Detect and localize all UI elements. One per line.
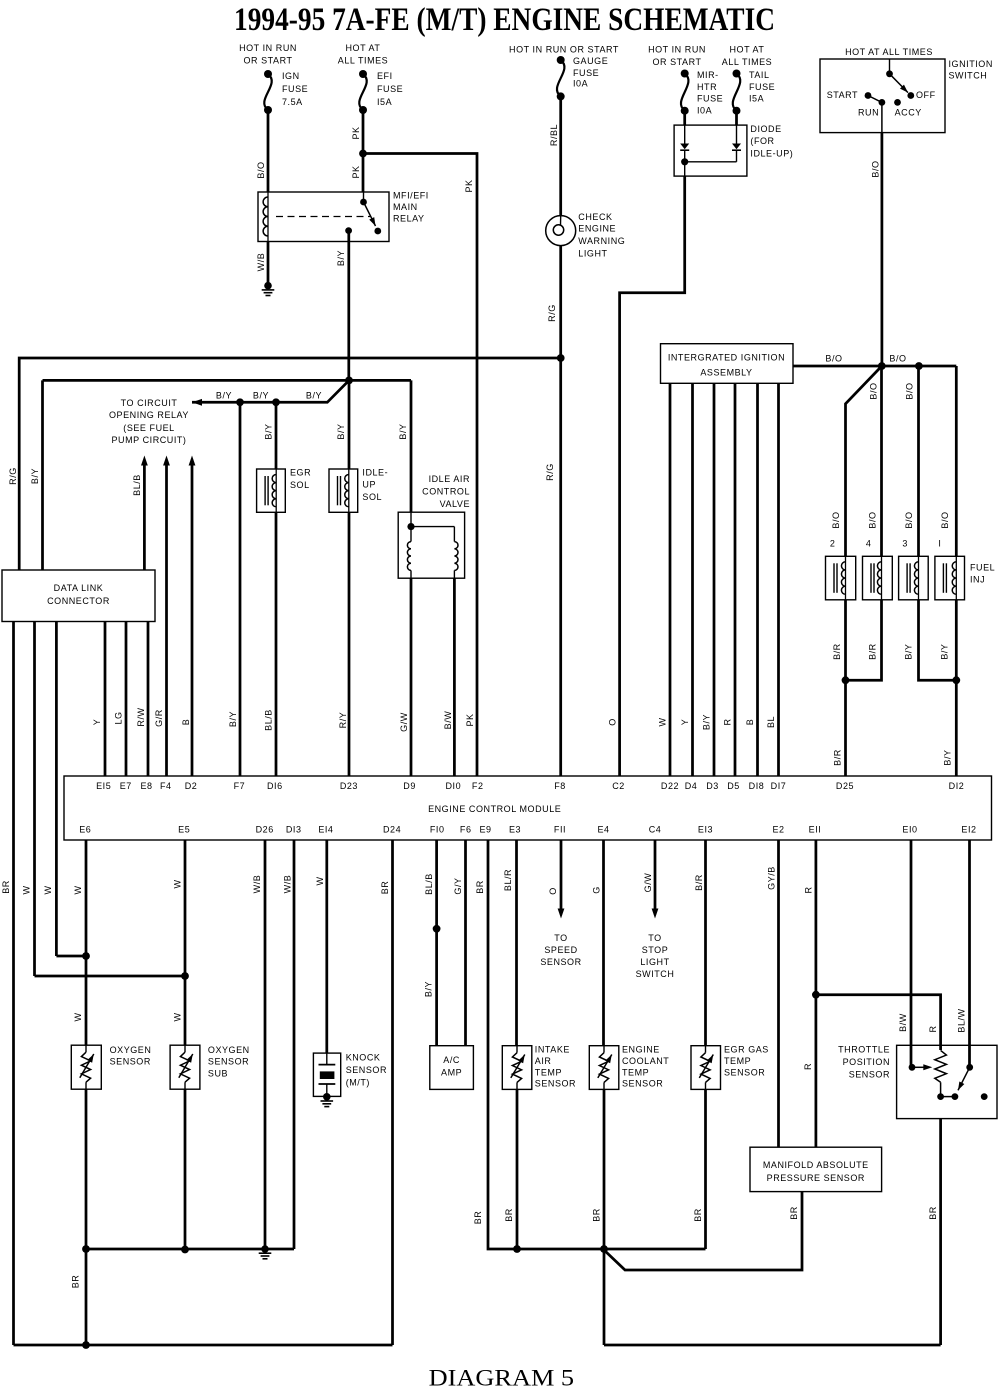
label W below E5 [173, 879, 183, 888]
wire BL/B DLC to circuit opening relay arrow [141, 456, 148, 571]
svg-text:D23: D23 [340, 781, 358, 791]
svg-text:B/O: B/O [869, 382, 879, 399]
svg-text:HOT AT: HOT AT [346, 43, 381, 53]
svg-text:OPENING RELAY: OPENING RELAY [109, 410, 189, 420]
svg-text:ENGINE CONTROL MODULE: ENGINE CONTROL MODULE [428, 804, 561, 814]
label IDLE-UP SOL [362, 468, 388, 503]
svg-text:TEMP: TEMP [724, 1056, 751, 1066]
svg-text:MFI/EFI: MFI/EFI [393, 191, 429, 201]
sensor manifold absolute pressure sensor [750, 1147, 882, 1191]
svg-text:E3: E3 [509, 825, 521, 835]
svg-text:RUN: RUN [858, 108, 879, 118]
node BR junction coolant [600, 1245, 608, 1253]
injector no.1 [935, 556, 965, 600]
svg-text:B/Y: B/Y [306, 391, 322, 401]
label W above O2 sub [173, 1012, 183, 1021]
svg-text:B/Y: B/Y [216, 391, 232, 401]
wire PK junction to ECM pin F2 [363, 154, 477, 777]
svg-text:ALL TIMES: ALL TIMES [722, 57, 772, 67]
node BL/B to B/Y splice [433, 925, 441, 933]
svg-text:W: W [173, 879, 183, 888]
svg-text:Y: Y [92, 719, 102, 726]
fuse GAUGE 10A [557, 56, 565, 100]
svg-text:SPEED: SPEED [544, 945, 577, 955]
svg-text:BL: BL [766, 716, 776, 728]
svg-text:ENGINE: ENGINE [622, 1045, 660, 1055]
label B/Y above IACV [398, 423, 408, 439]
label LG above E7 [114, 711, 124, 724]
svg-text:KNOCK: KNOCK [346, 1053, 381, 1063]
svg-text:W: W [22, 885, 32, 894]
wire B/W ECM pin E10 to TPS wiper [910, 840, 913, 1067]
svg-text:EI4: EI4 [318, 825, 333, 835]
label W/B below D13 [283, 875, 293, 894]
wire BR O2 sub to bus [184, 1089, 187, 1249]
node B/O junction ignition [878, 362, 886, 370]
svg-text:W/B: W/B [252, 875, 262, 894]
label B/Y above F7 [228, 711, 238, 727]
label HOT AT ALL TIMES (tail fuse) [722, 45, 772, 67]
svg-text:Y: Y [680, 719, 690, 726]
wire B/O ignition switch to B/O bus [881, 133, 884, 366]
label HOT IN RUN OR START (mir-htr fuse) [648, 45, 706, 67]
svg-text:B/O: B/O [831, 511, 841, 528]
svg-text:B/Y: B/Y [904, 644, 914, 660]
module engine control module (ECM) [64, 776, 992, 840]
fuse IGN 7.5A [264, 70, 272, 114]
svg-text:R/G: R/G [8, 467, 18, 485]
svg-text:SENSOR: SENSOR [849, 1069, 890, 1079]
label HOT IN RUN OR START (gauge fuse) [509, 45, 619, 55]
svg-text:I: I [938, 539, 941, 549]
wire B/O to injector 4 [880, 366, 883, 556]
label INTAKE AIR TEMP SENSOR [535, 1045, 576, 1089]
label B/O above inj4 [868, 511, 878, 528]
node PK junction [359, 150, 367, 158]
svg-text:BR: BR [71, 1275, 81, 1289]
svg-text:DIODE: DIODE [750, 124, 781, 134]
wire GY/B ECM pin E2 to MAP sensor [777, 840, 780, 1147]
svg-text:B/O: B/O [868, 511, 878, 528]
wire B/Y to idle air control valve [410, 380, 413, 512]
svg-text:FUSE: FUSE [697, 94, 723, 104]
svg-text:BR: BR [380, 881, 390, 895]
svg-text:B/R: B/R [832, 643, 842, 660]
wire BL/B EGR sol to ECM pin D16 [275, 512, 278, 776]
svg-text:PK: PK [351, 165, 361, 178]
svg-text:7.5A: 7.5A [282, 97, 303, 107]
label B/Y [702, 714, 712, 730]
svg-text:1994-95 7A-FE (M/T) ENGINE SC: 1994-95 7A-FE (M/T) ENGINE SCHEMATIC [234, 2, 775, 38]
svg-text:D3: D3 [706, 781, 719, 791]
label MFI/EFI MAIN RELAY [393, 191, 429, 224]
svg-text:HTR: HTR [697, 82, 717, 92]
svg-text:E8: E8 [140, 781, 152, 791]
svg-text:D4: D4 [685, 781, 698, 791]
label B above D2 [181, 719, 191, 726]
sensor knock sensor (M/T) [313, 1053, 340, 1096]
svg-text:B/O: B/O [940, 511, 950, 528]
label BR [592, 1208, 602, 1222]
fuse EFI 15A [359, 70, 367, 114]
svg-text:B/R: B/R [833, 749, 843, 766]
label THROTTLE POSITION SENSOR [838, 1045, 890, 1080]
diode (for idle-up) [674, 111, 747, 176]
svg-text:SENSOR: SENSOR [110, 1057, 151, 1067]
label TO CIRCUIT OPENING RELAY (SEE FUEL PUMP CIRCUIT) [109, 398, 189, 445]
wire BR intake air temp sensor to bus [516, 1089, 519, 1249]
svg-text:W: W [43, 885, 53, 894]
wire BR TPS to bottom bus [939, 1119, 942, 1345]
wire O ECM pin F11 to speed sensor (arrow) [558, 840, 565, 919]
svg-text:B/Y: B/Y [336, 423, 346, 439]
valve idle air control valve [398, 512, 464, 578]
wire R ECM pin E11 to MAP sensor [815, 840, 818, 1147]
svg-text:B/Y: B/Y [336, 250, 346, 266]
label R/G below junction [545, 463, 555, 481]
injector no.4 [863, 556, 893, 600]
wire B/Y horizontal bus [43, 379, 412, 382]
wire BR bottom-right bus [604, 1344, 941, 1347]
svg-text:FUSE: FUSE [573, 68, 599, 78]
svg-text:W/B: W/B [256, 253, 266, 272]
label Y [680, 719, 690, 726]
ground on left bus [259, 1245, 272, 1259]
svg-text:C4: C4 [649, 825, 662, 835]
label GAUGE FUSE I0A [573, 56, 608, 88]
svg-text:E7: E7 [120, 781, 132, 791]
label IGN FUSE 7.5A [282, 71, 308, 107]
svg-text:DI0: DI0 [445, 781, 461, 791]
label GY/B below E2 [767, 866, 777, 890]
label B [745, 719, 755, 726]
wire BL/W ECM pin E12 to TPS switch [968, 840, 971, 1067]
svg-text:PK: PK [351, 126, 361, 139]
svg-text:F2: F2 [472, 781, 484, 791]
wire B/R injector 4 to bus [846, 600, 882, 680]
svg-text:B/Y: B/Y [943, 749, 953, 765]
svg-text:ACCY: ACCY [895, 108, 922, 118]
svg-text:E9: E9 [479, 825, 491, 835]
svg-text:B/O: B/O [904, 511, 914, 528]
svg-text:R: R [723, 718, 733, 725]
svg-text:G/W: G/W [643, 873, 653, 893]
svg-text:4: 4 [866, 539, 872, 549]
label TO SPEED SENSOR [540, 933, 581, 967]
label W below E6 [73, 885, 83, 894]
label BL/B [132, 474, 142, 496]
wire BR MAP sensor to ground bus [604, 1192, 802, 1270]
svg-text:TO: TO [554, 933, 567, 943]
label MANIFOLD ABSOLUTE PRESSURE SENSOR [763, 1160, 869, 1183]
label PK [351, 165, 361, 178]
label B/Y [253, 391, 269, 401]
label W [658, 717, 668, 726]
svg-text:HOT IN RUN OR START: HOT IN RUN OR START [509, 45, 619, 55]
wire B/Y junction to idle-up solenoid [348, 380, 351, 469]
svg-text:IDLE-: IDLE- [362, 468, 388, 478]
svg-text:GY/B: GY/B [767, 866, 777, 890]
wire BR ECM pin D24 to bottom bus [391, 840, 394, 1345]
svg-text:B: B [745, 719, 755, 726]
svg-text:C2: C2 [612, 781, 625, 791]
svg-text:SOL: SOL [362, 492, 382, 502]
sensor intake air temp sensor [502, 1046, 532, 1090]
svg-text:CONNECTOR: CONNECTOR [47, 596, 110, 606]
wire B/R ECM pin E13 to EGR gas temp sensor [704, 840, 707, 1046]
svg-text:ASSEMBLY: ASSEMBLY [700, 368, 752, 378]
svg-text:ENGINE: ENGINE [578, 224, 616, 234]
svg-text:START: START [827, 90, 858, 100]
svg-text:DI3: DI3 [286, 825, 302, 835]
svg-text:R/Y: R/Y [338, 712, 348, 729]
svg-text:B/Y: B/Y [264, 423, 274, 439]
svg-text:BR: BR [475, 880, 485, 894]
label PK [464, 179, 474, 192]
svg-text:W: W [315, 876, 325, 885]
wire W junction link E5 [35, 975, 186, 978]
label B/Y [904, 644, 914, 660]
svg-text:SWITCH: SWITCH [949, 70, 988, 80]
label G/R above F4 [154, 709, 164, 727]
svg-text:W: W [658, 717, 668, 726]
sensor EGR gas temp sensor [691, 1046, 721, 1090]
wire W/B ECM pin D26 to ground bus [264, 840, 267, 1249]
label TO STOP LIGHT SWITCH [636, 933, 675, 979]
svg-text:INJ: INJ [970, 575, 985, 585]
svg-text:TEMP: TEMP [622, 1067, 649, 1077]
wire B/O IGN fuse to relay [267, 110, 270, 192]
svg-text:TO: TO [648, 933, 661, 943]
label O below F11 [548, 887, 558, 895]
svg-text:B/O: B/O [905, 382, 915, 399]
svg-text:EGR: EGR [290, 468, 311, 478]
svg-text:O: O [608, 718, 618, 726]
injector no.3 [899, 556, 929, 600]
svg-text:G: G [592, 886, 602, 894]
wire BR O2 sensor to bus [85, 1089, 88, 1345]
svg-text:RELAY: RELAY [393, 214, 425, 224]
svg-text:SUB: SUB [208, 1069, 228, 1079]
wire BR ECM pin E9 to right ground bus [488, 840, 706, 1249]
svg-text:SENSOR: SENSOR [535, 1079, 576, 1089]
label Y above E15 [92, 719, 102, 726]
label BR [71, 1275, 81, 1289]
wire B/Y relay contact to junction [347, 231, 350, 381]
node BR bus junction O2 sub [181, 1246, 189, 1254]
ECM bottom pin labels [79, 825, 976, 835]
svg-text:MIR-: MIR- [697, 70, 719, 80]
label B/Y above A/C amp [424, 981, 434, 997]
svg-text:DI8: DI8 [749, 781, 765, 791]
svg-text:IDLE AIR: IDLE AIR [429, 474, 470, 484]
label BR [1, 880, 11, 894]
title 1994-95 7A-FE (M/T) ENGINE SCHEMATIC [234, 2, 775, 38]
svg-text:OXYGEN: OXYGEN [208, 1045, 250, 1055]
label R above MAP [803, 1063, 813, 1070]
svg-text:EI2: EI2 [961, 825, 976, 835]
label injector number 3 [902, 539, 908, 549]
wire R IIA to ECM [734, 383, 737, 776]
svg-text:OXYGEN: OXYGEN [110, 1045, 152, 1055]
wire R/G warning light to ECM pin F8 [559, 246, 562, 776]
svg-text:D26: D26 [256, 825, 274, 835]
node BR bus junction O2 [82, 1245, 90, 1253]
svg-text:(M/T): (M/T) [346, 1078, 370, 1088]
svg-text:AIR: AIR [535, 1056, 552, 1066]
svg-text:SWITCH: SWITCH [636, 969, 675, 979]
label W [43, 885, 53, 894]
label INTERGRATED IGNITION ASSEMBLY [668, 353, 785, 378]
label B/Y above idle-up sol [336, 423, 346, 439]
label W/B below D26 [252, 875, 262, 894]
label BR below TPS [928, 1206, 938, 1220]
node R junction [812, 991, 820, 999]
label G/W below C4 [643, 873, 653, 893]
wire R/Y idle-up solenoid to ECM pin D23 [348, 512, 351, 776]
svg-text:SENSOR: SENSOR [724, 1067, 765, 1077]
label B/R below E13 [694, 874, 704, 891]
svg-text:I0A: I0A [573, 79, 588, 89]
svg-text:TEMP: TEMP [535, 1067, 562, 1077]
svg-text:B/R: B/R [868, 643, 878, 660]
svg-text:SENSOR: SENSOR [540, 957, 581, 967]
label B/Y above D12 [943, 749, 953, 765]
svg-text:G/R: G/R [154, 709, 164, 727]
svg-text:IGNITION: IGNITION [949, 59, 993, 69]
label KNOCK SENSOR (M/T) [346, 1053, 387, 1088]
wire W/B relay to ground [267, 242, 270, 286]
svg-text:B/R: B/R [694, 874, 704, 891]
caption DIAGRAM 5 [429, 1366, 574, 1392]
wire R/W DLC to ECM pin E8 [147, 622, 150, 777]
wire BR DLC to bottom bus [12, 622, 15, 1346]
label DIODE (FOR IDLE-UP) [750, 124, 793, 158]
label B/R above D25 [833, 749, 843, 766]
label TAIL FUSE I5A [749, 70, 775, 104]
label EFI FUSE I5A [377, 71, 403, 107]
label B/O [871, 160, 881, 177]
label ENGINE COOLANT TEMP SENSOR [622, 1045, 669, 1089]
node B/Y arrow-wire junction D16 [272, 398, 280, 406]
wire BR coolant temp sensor to bus [603, 1089, 606, 1249]
svg-text:HOT AT ALL TIMES: HOT AT ALL TIMES [845, 47, 933, 57]
sensor throttle position sensor [897, 1045, 997, 1118]
wire G/Y ECM pin F6 to A/C amplifier [464, 840, 467, 1046]
svg-text:G/W: G/W [399, 712, 409, 732]
svg-text:W: W [73, 885, 83, 894]
ground below relay [262, 282, 275, 296]
svg-text:STOP: STOP [642, 945, 669, 955]
svg-text:BR: BR [789, 1206, 799, 1220]
svg-text:R/W: R/W [136, 707, 146, 726]
svg-text:O: O [548, 887, 558, 895]
svg-text:E5: E5 [178, 825, 190, 835]
node B/Y arrow-wire junction F7 [236, 398, 244, 406]
label BL/W below E12 [957, 1008, 967, 1032]
svg-text:POSITION: POSITION [843, 1057, 890, 1067]
node B/Y junction [952, 676, 960, 684]
label OXYGEN SENSOR [110, 1045, 152, 1067]
svg-text:B/W: B/W [898, 1013, 908, 1032]
label R above TPS [928, 1025, 938, 1032]
label BR below D24 [380, 881, 390, 895]
svg-text:BL/B: BL/B [132, 474, 142, 496]
check engine warning light [546, 216, 576, 246]
svg-text:DI2: DI2 [949, 781, 965, 791]
wire G ECM pin E4 to coolant temp sensor [602, 840, 605, 1046]
svg-text:HOT IN RUN: HOT IN RUN [239, 43, 297, 53]
label B/O [889, 354, 906, 364]
wire LG DLC to ECM pin E7 [125, 622, 128, 777]
svg-text:PK: PK [464, 179, 474, 192]
svg-text:INTERGRATED IGNITION: INTERGRATED IGNITION [668, 353, 785, 363]
label FUEL INJ [970, 563, 995, 585]
svg-text:B: B [181, 719, 191, 726]
svg-text:BL/B: BL/B [264, 709, 274, 731]
label BR [504, 1208, 514, 1222]
label B/O [869, 382, 879, 399]
svg-text:CHECK: CHECK [578, 212, 612, 222]
svg-text:R/G: R/G [547, 304, 557, 322]
label OXYGEN SENSOR SUB [208, 1045, 250, 1079]
svg-text:DI7: DI7 [771, 781, 787, 791]
node BR junction intake [513, 1245, 521, 1253]
wire W DLC to E5 junction [33, 622, 36, 977]
wire B/O to injector 3 [917, 366, 920, 556]
label HOT AT ALL TIMES (ignition switch) [845, 47, 933, 57]
wire B ECM pin D2 to circuit opening relay arrow [189, 456, 196, 777]
svg-text:(SEE FUEL: (SEE FUEL [123, 423, 174, 433]
wire B/O bus from IIA [793, 365, 956, 368]
svg-text:BL/W: BL/W [957, 1008, 967, 1032]
wire W ECM pin E14 to knock sensor [325, 840, 328, 1053]
label BR above right bus [473, 1211, 483, 1225]
label BR [693, 1208, 703, 1222]
svg-text:E4: E4 [597, 825, 609, 835]
module integrated ignition assembly [661, 344, 794, 384]
label IGNITION SWITCH [949, 59, 993, 80]
wire Y IIA to ECM [691, 383, 694, 776]
label G/Y below F6 [453, 877, 463, 894]
sensor oxygen sensor [71, 1045, 101, 1089]
svg-text:FUSE: FUSE [377, 84, 403, 94]
label B/W above D10 [443, 711, 453, 730]
wire B/Y injector 1 to ECM pin D12 [955, 600, 958, 776]
svg-text:PRESSURE SENSOR: PRESSURE SENSOR [767, 1173, 865, 1183]
sensor oxygen sensor sub [170, 1045, 200, 1089]
solenoid IDLE-UP SOL [329, 469, 358, 512]
svg-text:B/W: B/W [443, 711, 453, 730]
wire BL/R ECM pin E3 to intake air temp sensor [515, 840, 518, 1046]
svg-text:D9: D9 [403, 781, 416, 791]
svg-text:B/Y: B/Y [398, 423, 408, 439]
svg-text:FUSE: FUSE [749, 82, 775, 92]
svg-text:IGN: IGN [282, 71, 300, 81]
label B/O [256, 161, 266, 178]
label B/O above inj3 [904, 511, 914, 528]
solenoid EGR SOL [257, 469, 286, 512]
svg-text:SENSOR: SENSOR [346, 1065, 387, 1075]
wire BR coolant branch down [603, 1249, 606, 1345]
svg-text:COOLANT: COOLANT [622, 1056, 669, 1066]
svg-text:R: R [804, 886, 814, 893]
wire BR left ground bus [86, 1248, 294, 1251]
svg-text:UP: UP [362, 480, 376, 490]
svg-text:B/Y: B/Y [424, 981, 434, 997]
label A/C AMP [441, 1055, 462, 1078]
svg-text:EFI: EFI [377, 71, 393, 81]
